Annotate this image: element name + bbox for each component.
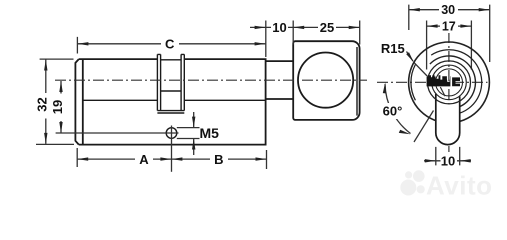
- svg-text:25: 25: [320, 20, 334, 35]
- svg-text:B: B: [214, 152, 223, 167]
- svg-text:19: 19: [50, 100, 65, 114]
- svg-text:A: A: [139, 152, 149, 167]
- svg-text:Avito: Avito: [426, 171, 493, 201]
- svg-text:10: 10: [441, 154, 455, 169]
- svg-text:10: 10: [272, 20, 286, 35]
- svg-text:17: 17: [442, 19, 456, 33]
- svg-text:M5: M5: [200, 125, 220, 141]
- svg-text:32: 32: [34, 97, 49, 111]
- svg-text:C: C: [165, 37, 175, 52]
- svg-text:60°: 60°: [383, 104, 403, 119]
- svg-text:R15: R15: [381, 41, 405, 56]
- svg-text:30: 30: [441, 3, 455, 17]
